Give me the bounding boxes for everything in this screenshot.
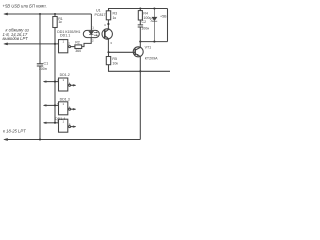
svg-text:1: 1: [63, 40, 65, 44]
gate DD1.1 box: [59, 40, 68, 53]
gate DD1.1 output bubble: [69, 46, 71, 48]
node junction dot collector/output: [139, 70, 141, 72]
svg-text:1к: 1к: [113, 16, 117, 20]
resistor R3: [106, 11, 110, 20]
svg-text:4: 4: [104, 23, 106, 27]
svg-text:С1: С1: [44, 62, 49, 66]
gate DD1.3 box: [59, 102, 68, 115]
svg-text:360: 360: [75, 49, 81, 53]
resistor R4: [138, 11, 142, 20]
VT1 base bar: [134, 49, 136, 55]
svg-text:1: 1: [63, 102, 65, 106]
gate DD1.2 box: [59, 78, 68, 91]
gate DD1.2 bubble+stub arrow: [69, 84, 71, 86]
gate DD1.3 bubble+stub arrow: [69, 108, 71, 110]
node junction dot VD1 bottom: [153, 41, 155, 43]
wire DD1.4 input w/ arrow: [44, 122, 59, 124]
transistor VT1 circle: [133, 47, 143, 57]
node junction dot DD1.2 input: [54, 81, 56, 83]
gate DD1.4 bubble+stub arrow: [69, 126, 71, 128]
svg-text:1к: 1к: [58, 20, 62, 24]
capacitor C2: [138, 25, 143, 27]
svg-text:DD1.2: DD1.2: [60, 73, 70, 77]
svg-text:+5В: +5В: [160, 14, 167, 18]
node junction dot VT1 top: [139, 41, 141, 43]
resistor R5: [106, 57, 110, 65]
node junction dot DD1.3 input: [54, 104, 56, 106]
node junction dot rail/C1: [39, 13, 41, 15]
diode LED of U1: [89, 30, 93, 37]
coupling arrows: [94, 32, 97, 35]
gate DD1.4 box: [59, 119, 68, 132]
node junction dot rail/R4: [139, 7, 141, 9]
svg-text:100н: 100н: [141, 26, 149, 30]
svg-text:к 18-25 LPT: к 18-25 LPT: [3, 128, 26, 133]
wire DD1.2 input w/ arrow: [44, 81, 59, 83]
wire arrow left ground: [4, 138, 8, 140]
wire R5 top: [108, 53, 110, 57]
svg-text:КТ209А: КТ209А: [145, 57, 158, 61]
svg-text:VT1: VT1: [145, 46, 152, 50]
svg-text:100н: 100н: [39, 67, 47, 71]
svg-text:R2: R2: [75, 41, 80, 45]
node junction dot rail/R1: [54, 13, 56, 15]
svg-text:R3: R3: [113, 12, 118, 16]
VT1 emitter slant with arrow: [135, 47, 140, 50]
wire arrow left (+5V off-page): [4, 13, 8, 15]
svg-text:выводов LPT: выводов LPT: [3, 36, 29, 41]
svg-text:R4: R4: [143, 11, 148, 15]
wire emitter top line: [140, 41, 167, 43]
wire DD1.3 input w/ arrow: [44, 104, 59, 106]
wire R1 chain vertical: [54, 14, 56, 123]
wire R2 to LED cathode (Z): [82, 38, 92, 47]
capacitor C1: [37, 64, 43, 66]
svg-text:2: 2: [92, 38, 94, 42]
phototransistor collector: [105, 20, 109, 33]
svg-text:DD1.1: DD1.1: [60, 34, 70, 38]
wire arrow left LPT input: [4, 43, 8, 45]
svg-text:3: 3: [110, 41, 112, 45]
svg-text:С2: С2: [142, 20, 147, 24]
node junction dot DD1.1 input: [54, 43, 56, 45]
node junction dot rail/VD1: [153, 7, 155, 9]
svg-text:2: 2: [68, 42, 70, 46]
phototransistor emitter: [105, 36, 109, 53]
wire LPT input line DD1.1: [5, 43, 59, 45]
wire R4 to C2: [139, 20, 141, 25]
wire C1 branch: [39, 14, 41, 64]
svg-text:U1: U1: [96, 9, 101, 13]
svg-text:10к: 10к: [112, 61, 118, 65]
wire gate output to R2: [71, 46, 75, 48]
svg-text:1: 1: [92, 26, 94, 30]
phototransistor base bar: [104, 30, 106, 38]
wire ground rail: [5, 139, 140, 141]
svg-text:1: 1: [58, 40, 60, 44]
node junction dot gnd/C1: [39, 138, 41, 140]
optocoupler U1 LED stadium: [83, 30, 99, 37]
wire right rail down: [167, 9, 169, 42]
resistor R1: [53, 17, 57, 28]
node +5V top-left rail: [5, 13, 91, 15]
node junction dot R3/collector: [107, 23, 109, 25]
svg-text:1: 1: [63, 78, 65, 82]
wire VT1 collector down: [139, 56, 141, 139]
wire R3 top corner to right rail: [109, 9, 168, 11]
wire R5 bottom corner to output: [109, 65, 171, 72]
wire C2 to VT1 node: [139, 27, 141, 42]
wire anode drop from rail: [90, 14, 92, 30]
wire R4 top: [139, 9, 141, 11]
diode VD1: [152, 9, 158, 42]
wire VT1 top: [139, 42, 141, 48]
svg-text:100к: 100к: [143, 16, 151, 20]
node junction dot base/R5: [107, 51, 109, 53]
wire base from opto: [109, 51, 136, 53]
resistor R2: [75, 45, 82, 49]
svg-text:DD1.3: DD1.3: [60, 97, 70, 101]
wire C1 bottom to ground rail: [39, 66, 41, 140]
svg-text:+5В USB или БП комп.: +5В USB или БП комп.: [3, 3, 47, 8]
node junction dot DD1.4 input: [54, 122, 56, 124]
VT1 collector slant: [135, 54, 140, 57]
optocoupler U1 phototransistor circle: [102, 29, 112, 39]
svg-text:PC817: PC817: [95, 13, 106, 17]
